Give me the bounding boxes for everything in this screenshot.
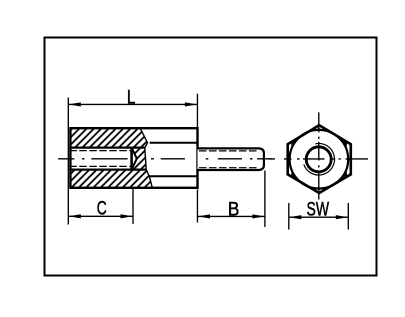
- SW dimension line: [289, 216, 349, 218]
- border frame: [45, 38, 377, 276]
- C arrow right: [121, 214, 134, 218]
- SW arrow right: [336, 215, 349, 219]
- chamfer circle: [290, 130, 349, 189]
- L dimension line: [68, 103, 197, 105]
- hexagon end view: [288, 125, 351, 193]
- threaded stud outline: [198, 148, 264, 170]
- L extension line left (shared with C): [67, 98, 69, 225]
- hex corner chamfer upper-right: [341, 140, 347, 150]
- hex edge line lower: [149, 175, 197, 177]
- stud thread minor bottom (dashed): [199, 167, 257, 169]
- C arrow left: [68, 214, 81, 218]
- svg-text:B: B: [228, 199, 240, 221]
- B dimension line: [198, 215, 265, 217]
- B extension line left: [196, 190, 198, 223]
- SW extension line right: [347, 203, 349, 230]
- drill cone upper: [132, 148, 137, 159]
- hatched section region of standoff body: [70, 128, 152, 188]
- hex corner chamfer lower-left: [291, 169, 297, 179]
- tapped hole minor circle: [306, 147, 331, 172]
- B arrow left: [198, 214, 211, 218]
- C dimension line: [68, 215, 133, 217]
- hex horizontal center line: [269, 158, 369, 160]
- B extension line right: [264, 171, 266, 228]
- bore top minor line (dashed thin): [69, 150, 131, 152]
- L extension line right: [196, 94, 198, 127]
- side view center line: [58, 158, 271, 160]
- drill cone lower: [132, 159, 137, 170]
- L arrow left: [68, 102, 81, 106]
- bore end vertical: [130, 148, 133, 170]
- bore bottom thread line (thick): [69, 169, 146, 171]
- svg-text:SW: SW: [307, 199, 330, 221]
- hex vertical center line: [318, 112, 320, 199]
- L arrow right: [185, 102, 198, 106]
- hex corner chamfer lower-right: [341, 169, 347, 179]
- section break line: [140, 128, 152, 188]
- hex edge line upper: [150, 142, 198, 144]
- SW arrow left: [289, 215, 302, 219]
- hex corner chamfer bottom: [313, 188, 324, 191]
- stud thread minor top (dashed): [199, 150, 257, 152]
- body outline (hex standoff side view): [70, 128, 197, 188]
- hex corner chamfer upper-left: [291, 140, 297, 150]
- C extension line right: [132, 189, 134, 225]
- thread major arc (3/4 circle): [304, 143, 335, 175]
- B arrow right: [252, 214, 265, 218]
- svg-text:C: C: [97, 198, 107, 220]
- bore top thread line (major, thick): [69, 147, 145, 149]
- tapped bore cavity (white): [69, 149, 137, 169]
- hex corner chamfer top: [313, 128, 324, 131]
- SW extension line left: [288, 203, 290, 230]
- svg-text:L: L: [127, 87, 136, 109]
- bore bottom minor line (dashed thin): [69, 165, 131, 167]
